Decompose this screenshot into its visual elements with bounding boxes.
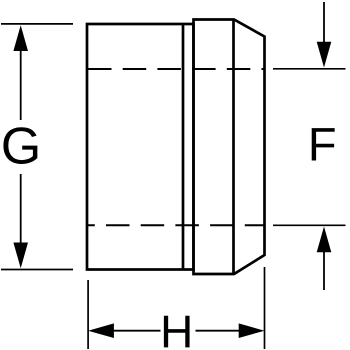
dim G upper arrow bbox=[20, 48, 22, 120]
dim H right arrow bbox=[239, 323, 265, 338]
label H bbox=[164, 316, 190, 348]
dim F lower arrow bbox=[323, 250, 325, 290]
hidden bore line top (dashed) bbox=[87, 68, 265, 70]
dim H left arrow bbox=[88, 323, 114, 338]
part: chamfer start line on collar bbox=[232, 20, 235, 275]
dim F top extension line bbox=[273, 68, 346, 70]
label F bbox=[312, 128, 335, 160]
dim H right extension line bbox=[264, 267, 266, 349]
dim F bottom extension line bbox=[273, 224, 346, 226]
dim F upper arrow bbox=[323, 2, 325, 44]
part: groove line on body bbox=[182, 24, 185, 270]
dim G bottom extension line bbox=[1, 269, 73, 271]
dim G lower arrow bbox=[20, 174, 22, 245]
dim H left extension line bbox=[87, 280, 89, 349]
label G bbox=[3, 127, 37, 164]
dim G top extension line bbox=[1, 23, 73, 25]
part: collar with chamfered nose bbox=[194, 20, 265, 275]
part: main cylinder body bbox=[87, 24, 194, 270]
hidden bore line bottom (dashed) bbox=[87, 224, 265, 226]
